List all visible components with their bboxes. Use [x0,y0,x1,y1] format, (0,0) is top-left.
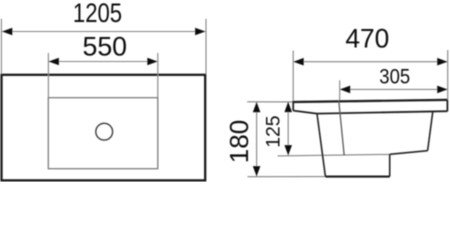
svg-text:1205: 1205 [73,0,122,29]
arrowhead 305 left [340,86,350,94]
extension line left of dim 1205 [0,19,2,74]
rim top edge (side view) [293,100,447,102]
svg-text:550: 550 [82,31,127,61]
rim bottom edge left overhang [293,111,317,114]
rim bottom edge [317,111,447,113]
dimension line 1205 [2,31,205,33]
extension line right of dim 550 [157,53,159,98]
inner bowl visible edge [339,101,344,156]
extension line bottom for dim 180 [248,176,326,178]
arrowhead 1205 right [195,28,205,36]
arrowhead 180 bottom [253,166,261,176]
rim left end [292,101,294,111]
basin outer rectangle (top view) [2,75,206,181]
extension line right of dim 470 / 305 [447,50,449,100]
extension line right of dim 1205 [205,19,207,74]
svg-text:470: 470 [345,23,389,53]
lower box bottom [325,176,389,178]
svg-text:305: 305 [379,65,410,88]
dimension line 550 [49,61,157,63]
arrowhead 180 top [253,102,261,112]
arrowhead 470 right [437,58,447,66]
arrowhead 550 left [49,58,59,66]
bowl left wall [317,114,325,177]
arrowhead 125 bottom [284,145,292,155]
drain hole circle [96,123,113,140]
dimension line 305 [340,88,447,90]
svg-text:125: 125 [264,115,285,147]
arrowhead 470 left [293,58,303,66]
lower box right wall [389,154,391,176]
extension line left of dim 305 [339,80,341,101]
dimension line 180 (vertical) [256,103,258,177]
bowl right wall [428,112,433,151]
extension line top for dims 180/125 [247,101,293,103]
basin inner bowl rectangle (top view) [48,98,158,169]
dimension line 470 [294,61,447,63]
rim right end [446,100,448,111]
arrowhead 1205 left [2,28,12,36]
extension line left of dim 470 [292,51,294,102]
arrowhead 550 right [147,58,157,66]
dimension line 125 (vertical) [287,102,289,155]
extension line bottom for dim 125 [278,154,390,156]
arrowhead 305 right [437,86,447,94]
bowl step bottom right [390,151,428,155]
extension line left of dim 550 [47,53,49,98]
svg-text:180: 180 [224,120,254,163]
arrowhead 125 top [284,102,292,112]
